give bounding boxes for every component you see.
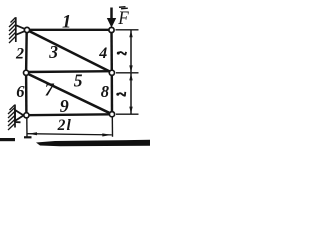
- extension line below node E: [26, 117, 28, 137]
- label l upper (sideways script ell): [117, 52, 120, 55]
- svg-text:7: 7: [45, 79, 55, 99]
- member 7 diagonal C-G: [26, 73, 112, 114]
- force F arrowhead: [107, 18, 116, 28]
- dimension 2l: right arrowhead: [102, 133, 111, 136]
- scan artifact: left bottom bar: [0, 138, 15, 141]
- member 8 right lower chord D-G: [111, 73, 114, 114]
- scan artifact: bottom band: [36, 140, 150, 147]
- wall hatching top support: [9, 18, 16, 44]
- dimension lower l: bottom arrowhead: [129, 107, 132, 114]
- svg-text:4: 4: [98, 45, 107, 62]
- svg-text:3: 3: [48, 42, 58, 62]
- node B top-right: [109, 27, 114, 32]
- dimension 2l: horizontal line: [28, 134, 112, 135]
- node C mid-left: [24, 70, 29, 75]
- dimension upper l: vertical line: [130, 31, 132, 73]
- svg-text:6: 6: [16, 82, 25, 101]
- dimension upper l: bottom arrowhead: [129, 65, 132, 72]
- wall face bottom support: [14, 105, 16, 128]
- extension line right of node D: [116, 72, 139, 74]
- dimension lower l: vertical line: [130, 73, 132, 113]
- svg-text:5: 5: [74, 70, 83, 90]
- pin link lower (wall to node A): [16, 30, 27, 35]
- extension line below node G: [111, 116, 113, 137]
- node G bottom-right: [109, 112, 114, 117]
- wall face top support: [15, 17, 17, 42]
- pin link upper (wall to node A): [16, 25, 27, 30]
- member 2 left upper chord A-C: [25, 30, 28, 73]
- svg-text:9: 9: [60, 96, 69, 116]
- member 5 middle chord C-D: [26, 70, 112, 73]
- member 4 right upper chord B-D: [110, 30, 113, 73]
- svg-text:2: 2: [15, 45, 24, 62]
- svg-text:2l: 2l: [57, 117, 72, 134]
- svg-text:F: F: [117, 7, 129, 28]
- roller triangle support at node E: [15, 110, 24, 121]
- node A top-left: [24, 27, 29, 32]
- extension line right of node G: [116, 113, 139, 115]
- wall hatching bottom support: [8, 105, 15, 130]
- svg-text:8: 8: [101, 82, 109, 101]
- node E bottom-left: [24, 113, 29, 118]
- support base smudge: [15, 121, 21, 123]
- dimension 2l: left arrowhead: [28, 132, 37, 135]
- extension line right of node B: [116, 29, 139, 31]
- member 6 left lower chord C-E: [25, 73, 28, 115]
- svg-text:1: 1: [62, 13, 71, 33]
- label l lower (sideways script ell): [116, 93, 119, 96]
- member 1 top chord A-B: [27, 29, 112, 31]
- member 3 diagonal A-D: [27, 30, 112, 73]
- dimension lower l: top arrowhead: [129, 73, 132, 80]
- force F arrow shaft: [110, 8, 113, 21]
- member 9 bottom chord E-G: [26, 113, 112, 116]
- dimension upper l: top arrowhead: [129, 30, 132, 37]
- node D mid-right: [109, 70, 114, 75]
- scan artifact: small blob: [24, 136, 32, 138]
